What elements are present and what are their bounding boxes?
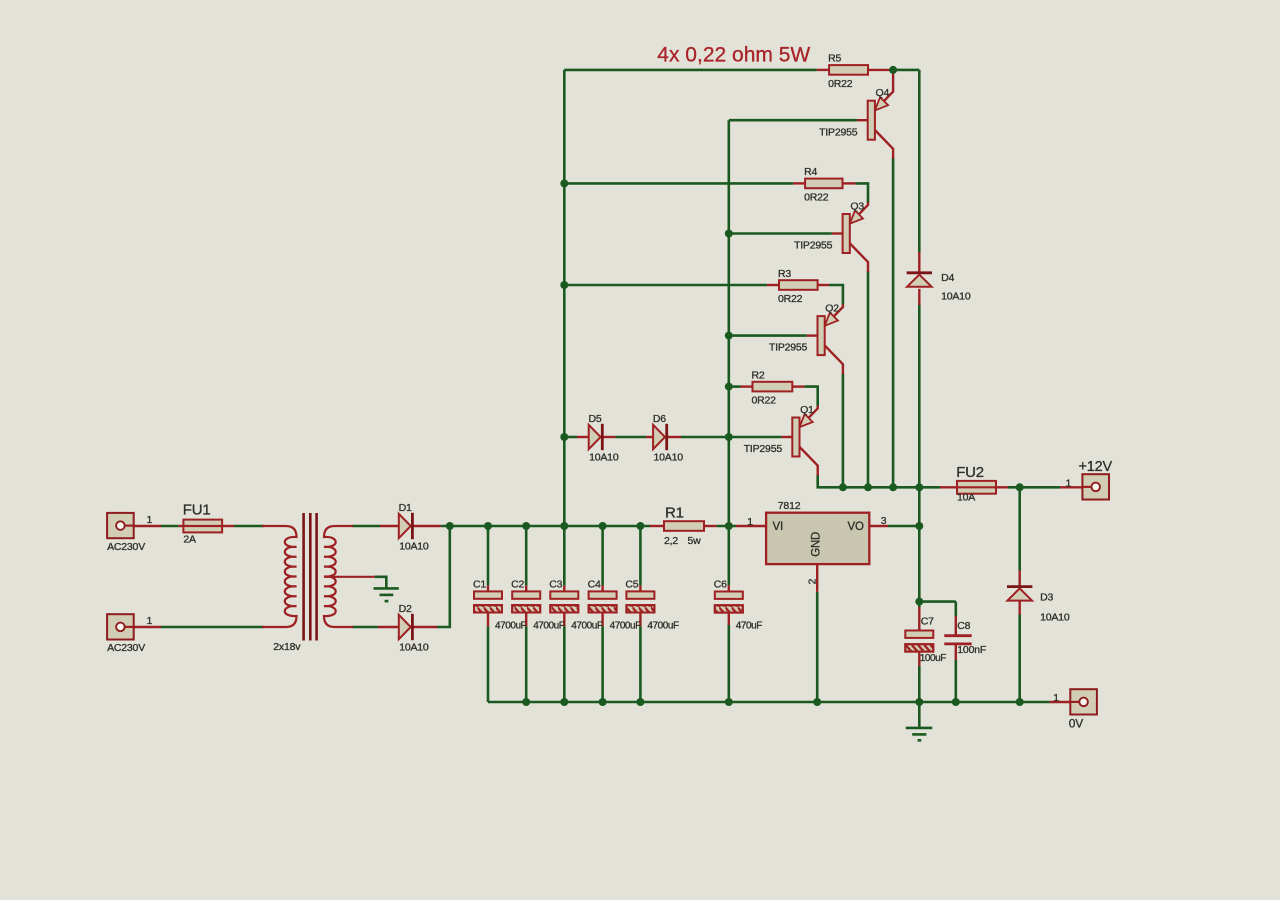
svg-text:10A: 10A [957,492,975,504]
svg-text:10A10: 10A10 [399,540,429,552]
svg-text:10A10: 10A10 [399,641,429,653]
svg-text:Q1: Q1 [800,404,814,416]
svg-text:4700uF: 4700uF [533,620,565,631]
svg-text:TIP2955: TIP2955 [794,240,833,252]
svg-text:0V: 0V [1069,716,1083,730]
svg-text:Q2: Q2 [825,303,839,315]
svg-text:TIP2955: TIP2955 [769,342,808,354]
svg-text:0R22: 0R22 [778,293,803,305]
svg-text:C6: C6 [714,579,727,591]
svg-text:R3: R3 [778,268,791,280]
svg-text:D4: D4 [941,272,954,284]
svg-text:FU1: FU1 [183,502,211,519]
svg-text:4700uF: 4700uF [571,620,603,631]
svg-text:0R22: 0R22 [752,395,777,407]
svg-text:3: 3 [881,515,887,527]
svg-text:D6: D6 [653,413,666,425]
svg-text:AC230V: AC230V [107,541,145,553]
svg-text:1: 1 [1053,692,1059,704]
svg-text:R2: R2 [752,369,765,381]
svg-text:1: 1 [147,615,153,627]
svg-text:4700uF: 4700uF [610,620,642,631]
svg-text:C7: C7 [921,615,934,627]
svg-text:C2: C2 [511,579,524,591]
svg-text:2A: 2A [183,533,196,545]
svg-text:2x18v: 2x18v [273,641,301,653]
svg-text:C8: C8 [957,620,970,632]
svg-text:4700uF: 4700uF [495,620,527,631]
svg-text:0R22: 0R22 [828,78,853,90]
svg-text:C1: C1 [473,579,486,591]
svg-text:1: 1 [147,514,153,526]
svg-text:1: 1 [747,516,753,528]
svg-text:D3: D3 [1040,592,1053,604]
svg-text:470uF: 470uF [736,621,762,632]
svg-text:0R22: 0R22 [804,191,829,203]
svg-text:AC230V: AC230V [107,642,145,654]
svg-text:+12V: +12V [1079,459,1113,475]
svg-text:2,2: 2,2 [664,535,678,547]
svg-text:C4: C4 [588,579,601,591]
svg-text:7812: 7812 [778,500,801,512]
svg-text:VI: VI [773,521,783,533]
svg-text:2: 2 [807,579,819,585]
svg-text:10A10: 10A10 [941,291,971,303]
svg-text:Q3: Q3 [850,200,864,212]
svg-text:10A10: 10A10 [654,451,684,463]
svg-text:TIP2955: TIP2955 [744,443,783,455]
svg-text:R1: R1 [665,505,684,522]
svg-text:C5: C5 [625,579,638,591]
svg-text:10A10: 10A10 [589,451,619,463]
svg-text:4700uF: 4700uF [647,620,679,631]
svg-text:D1: D1 [399,502,412,514]
svg-text:FU2: FU2 [956,464,984,481]
svg-text:C3: C3 [549,579,562,591]
svg-text:TIP2955: TIP2955 [819,126,858,138]
svg-text:100nF: 100nF [957,644,986,656]
svg-text:Q4: Q4 [876,87,890,99]
svg-text:1: 1 [1066,477,1072,489]
svg-text:4x 0,22 ohm 5W: 4x 0,22 ohm 5W [657,44,810,67]
svg-text:100uF: 100uF [920,653,946,664]
svg-text:R4: R4 [804,166,817,178]
svg-text:10A10: 10A10 [1040,612,1070,624]
svg-text:5w: 5w [688,535,702,547]
svg-text:R5: R5 [828,53,841,65]
svg-text:GND: GND [811,532,823,557]
svg-text:D5: D5 [589,413,602,425]
svg-text:D2: D2 [399,603,412,615]
svg-text:VO: VO [848,521,864,533]
